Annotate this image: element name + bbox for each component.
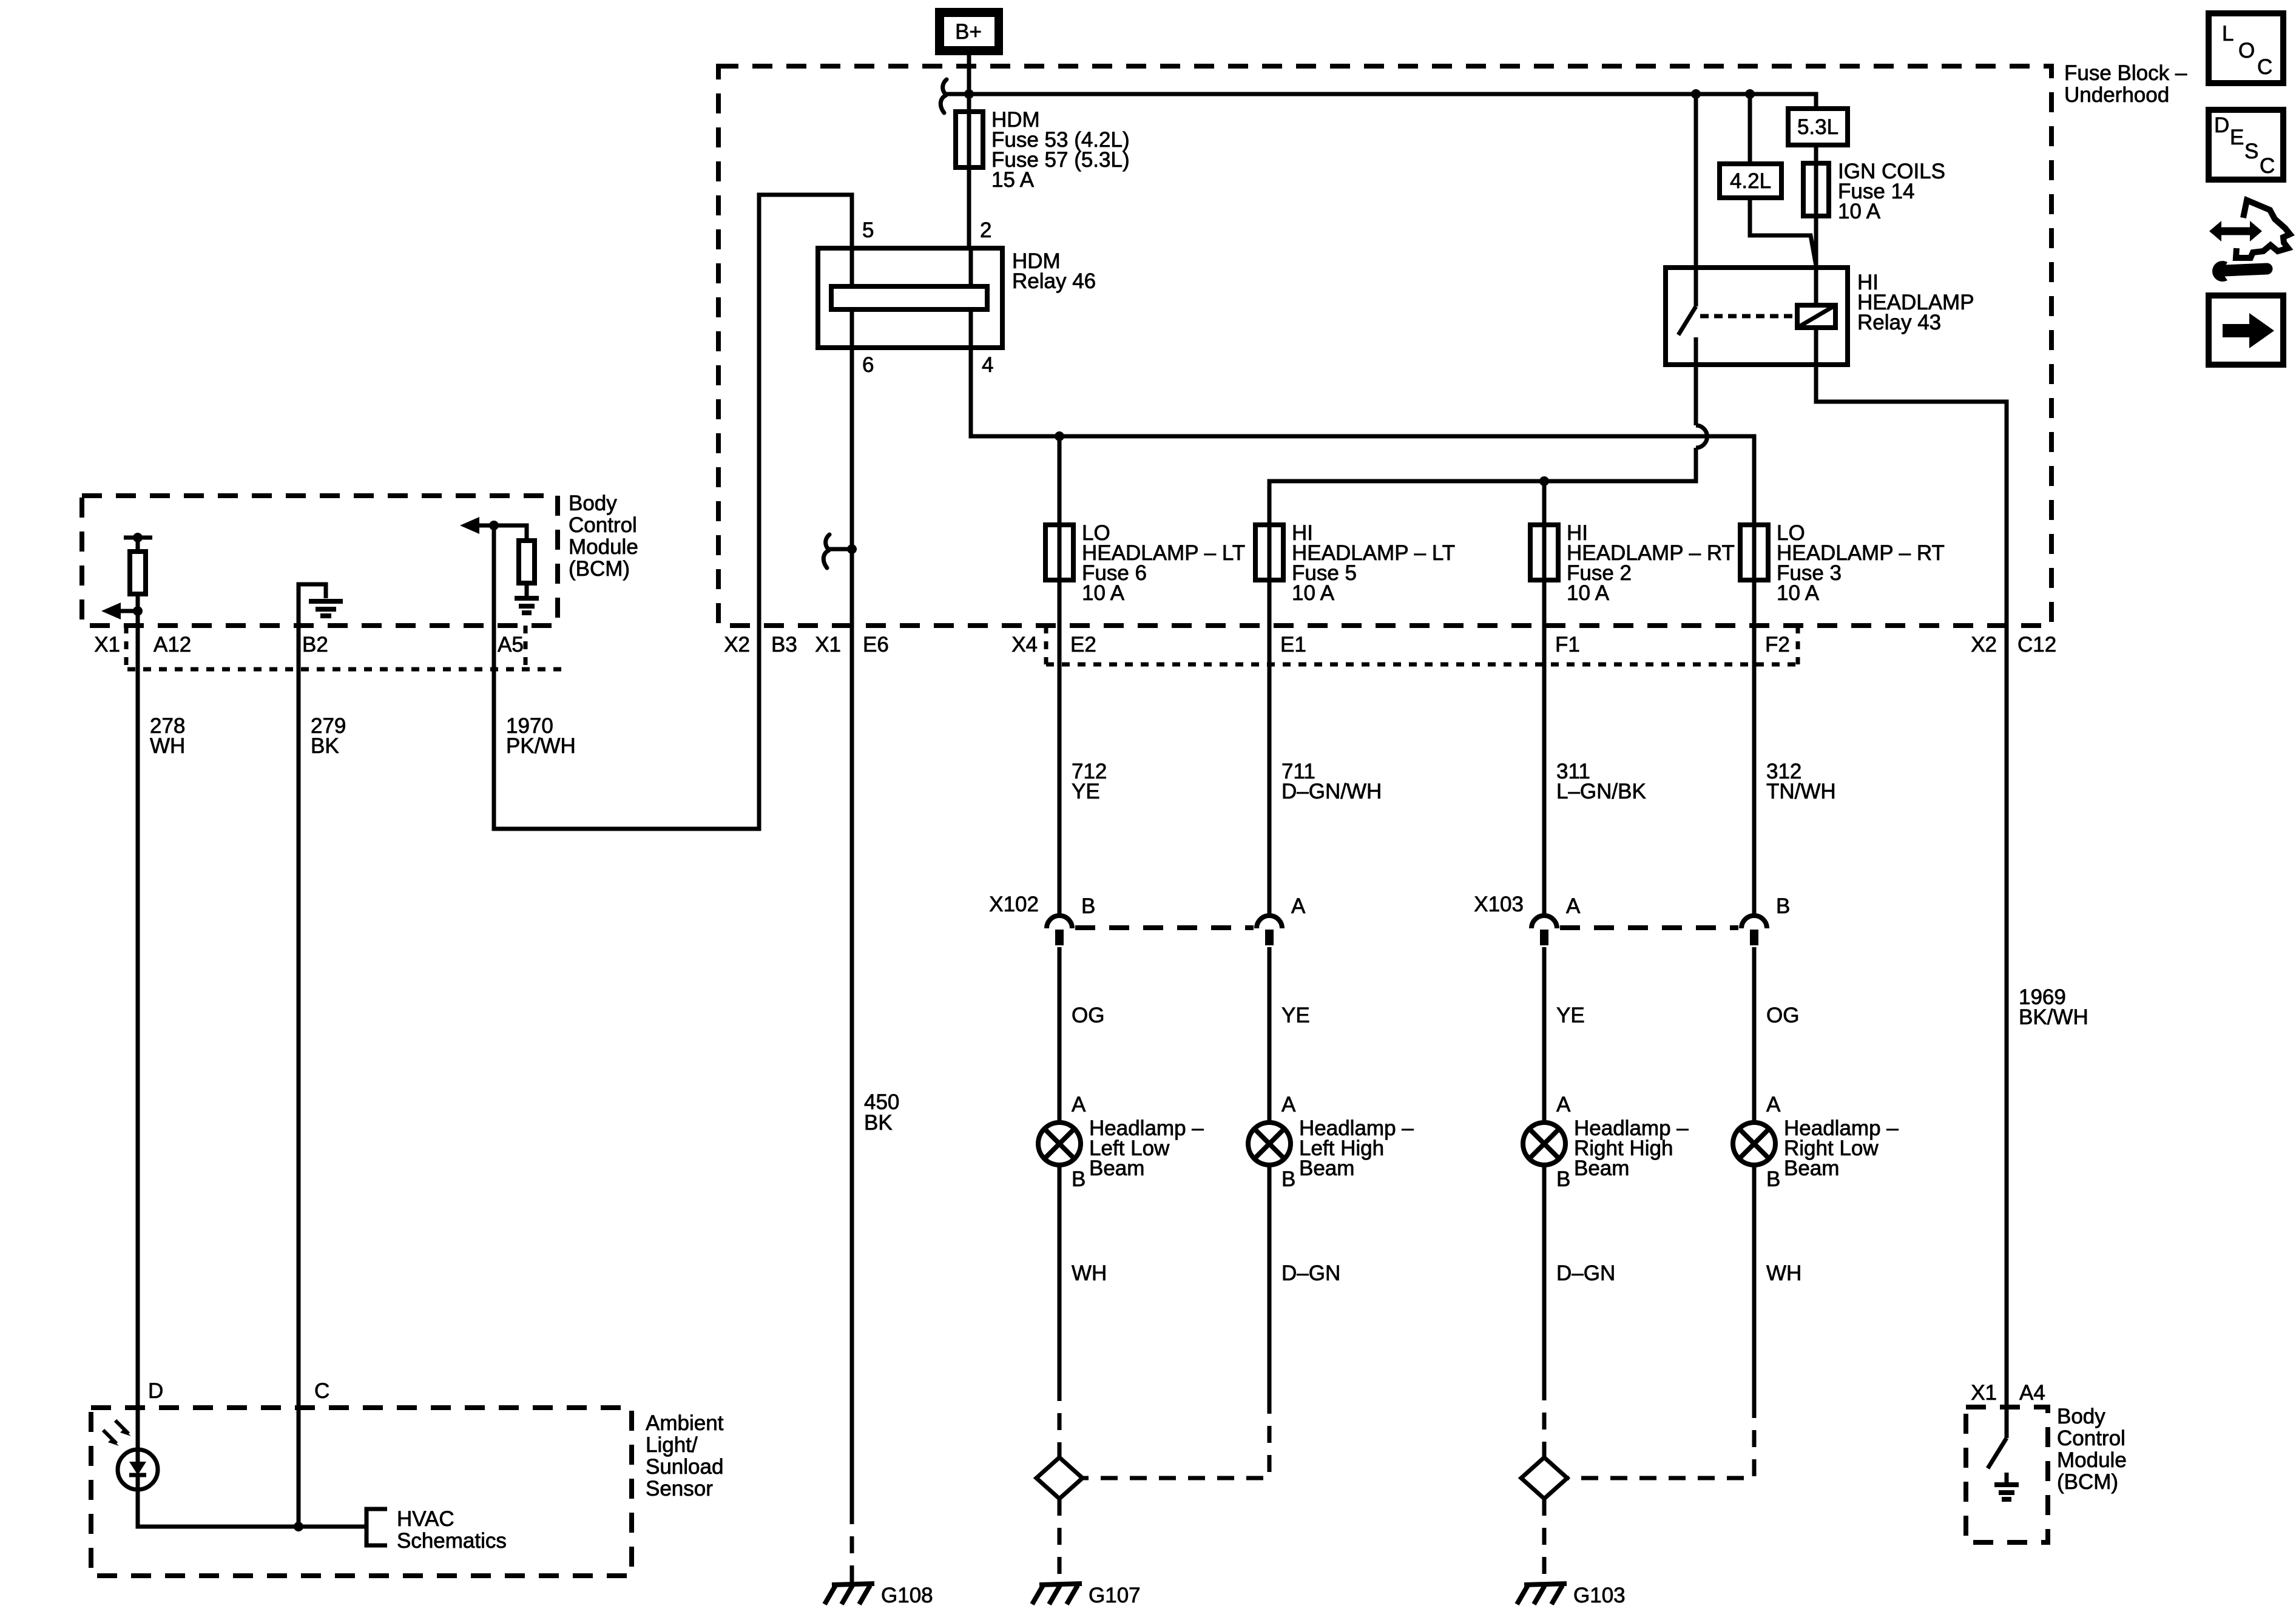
- Ambient Light/Sunload Sensor dashed box: [91, 1408, 632, 1576]
- svg-text:X102: X102: [989, 893, 1039, 916]
- svg-text:X2: X2: [1971, 633, 1997, 657]
- ground G108: [825, 1584, 933, 1607]
- svg-text:(BCM): (BCM): [569, 557, 630, 581]
- hidden wire right high to G103 splice: [1542, 1383, 1547, 1457]
- svg-text:10 A: 10 A: [1838, 200, 1881, 223]
- svg-text:WH: WH: [150, 734, 185, 758]
- lamp Headlamp Left Low Beam: [1038, 1116, 1204, 1180]
- svg-text:PK/WH: PK/WH: [506, 734, 576, 758]
- svg-text:E: E: [2230, 126, 2244, 149]
- continuation hook at bus left end: [940, 79, 947, 113]
- svg-text:Control: Control: [2057, 1426, 2125, 1450]
- svg-text:B: B: [1281, 1167, 1295, 1191]
- BCM connector band dotted line: [127, 667, 564, 672]
- svg-text:Light/: Light/: [646, 1433, 698, 1457]
- wire relay43 switch output to fuses 5 and 2: [1269, 365, 1707, 914]
- svg-text:A: A: [1556, 1093, 1571, 1116]
- wire left high bulb down: [1268, 1165, 1272, 1397]
- svg-text:D–GN: D–GN: [1281, 1261, 1340, 1285]
- splice diamond at G107: [1036, 1457, 1082, 1499]
- wire relay46 pin6 to G108 (circuit 450 BK): [850, 348, 854, 1507]
- svg-text:Module: Module: [569, 535, 638, 559]
- wire right high bulb down: [1542, 1165, 1547, 1383]
- svg-text:Beam: Beam: [1574, 1156, 1629, 1180]
- svg-text:E2: E2: [1070, 633, 1096, 657]
- ground G103: [1517, 1584, 1626, 1607]
- fuse LO HEADLAMP - RT Fuse 3 10A: [1740, 521, 1945, 605]
- svg-text:C12: C12: [2017, 633, 2056, 657]
- BCM internal A5 output with resistor to ground: [460, 517, 539, 626]
- svg-text:B: B: [1081, 894, 1095, 918]
- label Body Control Module (BCM): [569, 491, 638, 581]
- wire right low bulb down: [1752, 1165, 1757, 1401]
- wire left low bulb down: [1058, 1165, 1062, 1384]
- svg-text:5: 5: [862, 218, 874, 242]
- svg-text:B+: B+: [955, 20, 982, 44]
- inline connector X103: [1474, 893, 1790, 945]
- svg-text:G103: G103: [1573, 1584, 1626, 1607]
- svg-text:B3: B3: [771, 633, 797, 657]
- svg-text:10 A: 10 A: [1292, 581, 1335, 605]
- svg-text:YE: YE: [1281, 1004, 1310, 1027]
- svg-text:B2: B2: [302, 633, 328, 657]
- icon navigation arrows with wrench: [2209, 200, 2290, 282]
- fuse HI HEADLAMP - RT Fuse 2 10A: [1530, 521, 1735, 605]
- icon DESC box: [2209, 110, 2283, 180]
- svg-text:HVAC: HVAC: [397, 1507, 454, 1531]
- hidden wire left low to G107 splice: [1058, 1384, 1062, 1457]
- svg-text:Relay 46: Relay 46: [1012, 269, 1096, 293]
- svg-text:L–GN/BK: L–GN/BK: [1556, 780, 1646, 803]
- svg-text:X2: X2: [724, 633, 750, 657]
- node: fuse6 tap: [1055, 431, 1064, 441]
- svg-text:X1: X1: [94, 633, 120, 657]
- svg-text:X103: X103: [1474, 893, 1524, 916]
- Body Control Module (BCM) dashed box bottom right: [1966, 1407, 2048, 1542]
- wire relay43 coil to BCM (circuit 1969 BK/WH): [1816, 328, 2007, 1407]
- bus wire from B+ junction to 5.3L drop: [946, 94, 1816, 109]
- svg-text:F1: F1: [1555, 633, 1580, 657]
- hidden wire splice to ground G107: [1058, 1499, 1062, 1584]
- wire connector to left high bulb: [1268, 947, 1272, 1122]
- lamp Headlamp Left High Beam: [1248, 1116, 1414, 1180]
- svg-text:A12: A12: [154, 633, 191, 657]
- svg-text:Beam: Beam: [1299, 1156, 1354, 1180]
- svg-text:X4: X4: [1011, 633, 1038, 657]
- svg-text:10 A: 10 A: [1567, 581, 1610, 605]
- svg-text:X1: X1: [815, 633, 841, 657]
- svg-text:6: 6: [862, 353, 874, 377]
- BCM internal switch to ground: [1988, 1407, 2019, 1499]
- svg-text:L: L: [2222, 22, 2234, 46]
- svg-text:E6: E6: [863, 633, 889, 657]
- svg-text:(BCM): (BCM): [2057, 1470, 2118, 1494]
- wire relay46 pin5 to B3 column: [494, 195, 852, 829]
- node: B+ junction: [964, 89, 974, 99]
- svg-text:Beam: Beam: [1784, 1156, 1839, 1180]
- svg-text:E1: E1: [1280, 633, 1306, 657]
- svg-text:WH: WH: [1072, 1261, 1107, 1285]
- svg-text:TN/WH: TN/WH: [1766, 780, 1836, 803]
- svg-text:BK: BK: [311, 734, 339, 758]
- lamp Headlamp Right Low Beam: [1733, 1116, 1899, 1180]
- svg-text:2: 2: [980, 218, 991, 242]
- label 279 BK: [311, 714, 346, 758]
- svg-text:A: A: [1291, 894, 1306, 918]
- relay HI HEADLAMP Relay 43: [1666, 94, 1974, 365]
- splice diamond at G103: [1521, 1457, 1567, 1499]
- svg-text:Body: Body: [569, 491, 617, 515]
- wire BCM A12 to sensor D (circuit 278 WH): [136, 626, 140, 1450]
- wire connector to right high bulb: [1542, 947, 1547, 1122]
- label 1970 PK/WH: [506, 714, 576, 758]
- icon next-page arrow box: [2209, 295, 2283, 365]
- label 711 D-GN/WH: [1281, 760, 1382, 803]
- box 4.2L: [1720, 94, 1816, 266]
- wire connector to right low bulb: [1752, 947, 1757, 1122]
- node: relay43 feed junction: [1691, 89, 1701, 99]
- svg-text:5.3L: 5.3L: [1797, 115, 1838, 139]
- svg-text:4.2L: 4.2L: [1730, 169, 1771, 193]
- wire sensor D to HVAC node: [138, 1490, 366, 1527]
- svg-text:OG: OG: [1072, 1004, 1104, 1027]
- label 450 BK: [864, 1090, 899, 1135]
- fuse HDM Fuse 53/57 15A: [956, 94, 1130, 248]
- svg-text:A: A: [1072, 1093, 1086, 1116]
- svg-text:X1: X1: [1971, 1381, 1997, 1405]
- svg-text:Schematics: Schematics: [397, 1529, 507, 1553]
- svg-text:OG: OG: [1766, 1004, 1799, 1027]
- svg-text:O: O: [2238, 39, 2255, 62]
- ground G107: [1032, 1584, 1141, 1607]
- svg-text:10 A: 10 A: [1777, 581, 1820, 605]
- svg-text:B: B: [1556, 1167, 1570, 1191]
- svg-text:C: C: [2260, 154, 2275, 178]
- svg-text:G107: G107: [1089, 1584, 1141, 1607]
- svg-text:S: S: [2244, 140, 2258, 163]
- svg-text:BK/WH: BK/WH: [2019, 1005, 2088, 1029]
- svg-text:4: 4: [982, 353, 993, 377]
- label Ambient Light/ Sunload Sensor: [646, 1411, 724, 1501]
- BCM internal A12 pull-up: [101, 533, 152, 626]
- svg-text:C: C: [314, 1379, 329, 1403]
- node: 4.2L feed junction: [1745, 89, 1755, 99]
- svg-text:Underhood: Underhood: [2064, 83, 2169, 107]
- svg-text:Sunload: Sunload: [646, 1455, 723, 1479]
- svg-text:B: B: [1072, 1167, 1086, 1191]
- svg-text:BK: BK: [864, 1111, 893, 1135]
- icon LOC box: [2209, 13, 2283, 83]
- hidden wire splice to ground G103: [1542, 1499, 1547, 1584]
- hidden wire left high to G107 splice: [1082, 1397, 1269, 1478]
- connector band X4 dotted line: [1046, 663, 1798, 667]
- wire 5.3L drop: [1788, 109, 1848, 268]
- svg-text:Sensor: Sensor: [646, 1477, 713, 1501]
- Fuse Block - Underhood dashed box: [718, 66, 2051, 626]
- label 1969 BK/WH: [2019, 985, 2088, 1029]
- svg-text:B: B: [1776, 894, 1790, 918]
- relay HDM Relay 46: [818, 218, 1096, 377]
- svg-text:Control: Control: [569, 513, 637, 537]
- label 311 L-GN/BK: [1556, 760, 1646, 803]
- svg-text:A: A: [1766, 1093, 1781, 1116]
- label 712 YE: [1072, 760, 1107, 803]
- label 312 TN/WH: [1766, 760, 1836, 803]
- B+ power symbol: [935, 8, 1003, 55]
- wire B+ to bus: [967, 55, 971, 94]
- fuse IGN COILS Fuse 14 10A: [1803, 160, 1945, 223]
- svg-text:F2: F2: [1765, 633, 1790, 657]
- svg-text:A: A: [1566, 894, 1581, 918]
- continuation hook on E6 wire: [823, 535, 857, 568]
- svg-text:G108: G108: [881, 1584, 933, 1607]
- hidden wire right low to G103 splice: [1567, 1401, 1754, 1478]
- svg-text:A4: A4: [2019, 1381, 2045, 1405]
- photodiode sensor: [103, 1420, 158, 1490]
- fuse LO HEADLAMP - LT Fuse 6 10A: [1045, 521, 1245, 605]
- lamp Headlamp Right High Beam: [1523, 1116, 1689, 1180]
- node: sensor C junction: [294, 1522, 303, 1531]
- svg-text:B: B: [1766, 1167, 1780, 1191]
- label Body Control Module (BCM): [2057, 1405, 2127, 1494]
- wire fuse6 drop: [1058, 436, 1062, 914]
- label 278 WH: [150, 714, 185, 758]
- svg-text:Beam: Beam: [1089, 1156, 1144, 1180]
- svg-text:15 A: 15 A: [991, 168, 1035, 192]
- svg-text:10 A: 10 A: [1082, 581, 1125, 605]
- svg-text:Ambient: Ambient: [646, 1411, 724, 1435]
- svg-text:A5: A5: [498, 633, 524, 657]
- svg-text:YE: YE: [1072, 780, 1100, 803]
- svg-text:A: A: [1281, 1093, 1296, 1116]
- svg-text:Relay 43: Relay 43: [1857, 311, 1941, 334]
- label Fuse Block - Underhood: [2064, 61, 2187, 107]
- svg-text:D: D: [148, 1379, 163, 1403]
- wire BCM B2 to sensor C (circuit 279 BK): [297, 626, 301, 1527]
- svg-text:C: C: [2257, 55, 2272, 79]
- svg-text:Body: Body: [2057, 1405, 2105, 1428]
- svg-text:Fuse Block –: Fuse Block –: [2064, 61, 2187, 85]
- fuse HI HEADLAMP - LT Fuse 5 10A: [1255, 521, 1455, 605]
- svg-text:D–GN: D–GN: [1556, 1261, 1615, 1285]
- wire relay46 pin4 feed to fuses 6 and 3: [971, 348, 1754, 914]
- off-page bracket HVAC Schematics: [366, 1507, 507, 1553]
- svg-text:D: D: [2214, 113, 2229, 137]
- dashed hidden wire to G108: [850, 1507, 854, 1584]
- Body Control Module (BCM) dashed box top left: [82, 496, 558, 626]
- svg-text:WH: WH: [1766, 1261, 1801, 1285]
- inline connector X102: [989, 893, 1306, 945]
- wire connector to left low bulb: [1058, 947, 1062, 1122]
- svg-text:D–GN/WH: D–GN/WH: [1281, 780, 1382, 803]
- svg-text:Module: Module: [2057, 1448, 2127, 1472]
- svg-text:YE: YE: [1556, 1004, 1585, 1027]
- BCM internal B2 ground: [299, 584, 343, 626]
